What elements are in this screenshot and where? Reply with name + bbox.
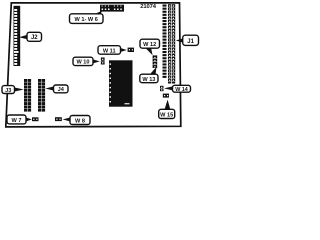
jumper W7 [32, 117, 39, 121]
jumper strip W12/W13 [153, 55, 158, 68]
label W13 callout [140, 67, 158, 83]
jumper W8 [55, 117, 62, 121]
svg-text:W 10: W 10 [76, 60, 89, 66]
label W1-W6 callout [70, 11, 104, 24]
part number 21074 [140, 4, 156, 10]
connector J2 [14, 6, 21, 66]
connector J1 [163, 4, 176, 83]
label W10 callout [73, 57, 100, 65]
label J3 callout [2, 86, 24, 94]
board outline [6, 3, 181, 127]
label J1 callout [176, 35, 199, 45]
svg-text:W 11: W 11 [103, 48, 116, 54]
jumper W11 [128, 48, 134, 52]
svg-text:W 1- W 6: W 1- W 6 [75, 17, 98, 23]
svg-text:J3: J3 [5, 88, 11, 94]
svg-text:W 14: W 14 [175, 87, 188, 93]
svg-text:W 15: W 15 [160, 112, 173, 118]
jumper W10 [101, 58, 105, 65]
label W14 callout [164, 85, 191, 93]
jumper W15 [163, 94, 169, 98]
svg-text:W 8: W 8 [75, 118, 85, 124]
label W8 callout [63, 116, 90, 125]
svg-text:J2: J2 [31, 35, 38, 41]
svg-text:W 7: W 7 [12, 118, 22, 124]
label W12 callout [140, 39, 160, 55]
label J2 callout [19, 32, 42, 41]
svg-text:J4: J4 [58, 87, 65, 93]
connector J4 [38, 79, 45, 112]
label W7 callout [7, 115, 32, 124]
svg-text:J1: J1 [187, 39, 194, 45]
label J4 callout [45, 85, 68, 93]
svg-text:W 13: W 13 [142, 77, 155, 83]
label W15 callout [159, 100, 175, 119]
svg-text:21074: 21074 [140, 4, 156, 10]
svg-text:W 12: W 12 [143, 42, 156, 48]
connector J3 [24, 79, 31, 112]
jumper W14 [160, 86, 164, 91]
IC U1 [109, 60, 133, 106]
label W11 callout [98, 46, 127, 55]
header W1-W6 [100, 5, 124, 12]
